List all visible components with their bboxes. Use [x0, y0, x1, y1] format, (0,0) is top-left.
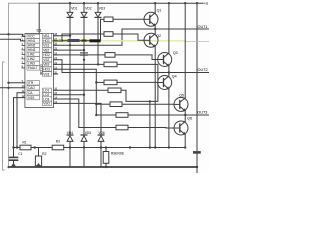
- resistor Rg3: [105, 53, 115, 58]
- wire VB1 row: [54, 35, 71, 37]
- svg-text:HIN3: HIN3: [28, 48, 35, 52]
- svg-text:RSENSE: RSENSE: [111, 152, 124, 156]
- diode VD3: [97, 3, 99, 12]
- svg-text:VCC: VCC: [28, 35, 35, 39]
- wire VB2 row: [54, 49, 85, 51]
- svg-text:HIN1: HIN1: [28, 39, 35, 43]
- resistor R5: [108, 88, 121, 93]
- svg-text:VD1: VD1: [71, 6, 77, 10]
- svg-text:HIN2: HIN2: [28, 44, 35, 48]
- svg-text:VB1: VB1: [43, 34, 49, 38]
- svg-text:VD2: VD2: [85, 6, 91, 10]
- svg-text:OUT1: OUT1: [198, 25, 208, 29]
- svg-text:LO1: LO1: [43, 89, 49, 93]
- svg-text:Q6: Q6: [187, 117, 192, 121]
- frame left: [8, 3, 10, 168]
- svg-text:VD4: VD4: [67, 131, 73, 135]
- node marks on highlight: [59, 40, 63, 42]
- resistor Rg6: [116, 113, 128, 118]
- resistor R3: [52, 145, 64, 150]
- wire LO3 row: [54, 99, 117, 128]
- wire VS3 stub: [54, 73, 58, 75]
- svg-text:IR2130: IR2130: [40, 64, 44, 75]
- wire VCC from left: [0, 34, 25, 36]
- wire OUT3 row: [96, 114, 116, 116]
- svg-text:VD5: VD5: [85, 131, 91, 135]
- svg-text:Q2: Q2: [156, 34, 161, 38]
- svg-text:VSS: VSS: [28, 96, 34, 100]
- svg-text:D1: D1: [37, 28, 43, 33]
- svg-text:R3: R3: [56, 139, 60, 143]
- node rail-right: [196, 2, 198, 4]
- svg-text:VS2: VS2: [43, 58, 49, 62]
- transistor Q5: [174, 97, 188, 111]
- transistor Q1: [144, 12, 158, 26]
- svg-text:LIN3: LIN3: [28, 62, 35, 66]
- svg-text:VB2: VB2: [43, 48, 49, 52]
- svg-text:R1: R1: [23, 141, 27, 145]
- svg-text:Q1: Q1: [157, 8, 162, 12]
- resistor Rg1: [101, 18, 105, 20]
- svg-text:VB3: VB3: [43, 63, 49, 67]
- wire bootstrap column 3: [97, 17, 99, 64]
- svg-text:HO1: HO1: [43, 39, 50, 43]
- svg-text:C1: C1: [18, 152, 22, 156]
- diode VD2: [83, 3, 85, 12]
- frame top segment: [9, 2, 40, 4]
- wire HIN1 from left: [0, 39, 25, 41]
- wire gate Q1 riser: [100, 19, 102, 40]
- svg-text:VS1: VS1: [43, 44, 49, 48]
- wire VSS to bottom: [14, 98, 25, 148]
- svg-text:HO3: HO3: [43, 68, 50, 72]
- resistor Rg4: [96, 81, 104, 83]
- diode VD1: [69, 3, 71, 12]
- wire VS2 row: [54, 60, 63, 73]
- wire +U top rail: [39, 2, 203, 4]
- wire VS1 row: [54, 29, 123, 45]
- wire sense rail: [14, 147, 186, 149]
- wire CA- to bottom: [17, 93, 25, 148]
- svg-text:Q4: Q4: [172, 74, 177, 78]
- svg-text:CAO: CAO: [28, 86, 35, 90]
- svg-text:LIN2: LIN2: [28, 57, 35, 61]
- wire VB3 row: [54, 63, 105, 65]
- transistor Q4: [158, 76, 172, 90]
- connector bracket left edge: [3, 62, 5, 170]
- wire HO1 row: [54, 40, 101, 42]
- svg-text:Q3: Q3: [173, 51, 178, 55]
- svg-text:R2: R2: [42, 152, 46, 156]
- svg-text:Q5: Q5: [179, 94, 184, 98]
- IC D1 pin boxes, pin names and pin numbers: [22, 32, 58, 106]
- IC D1 body: [25, 34, 54, 108]
- svg-text:LIN1: LIN1: [28, 53, 35, 57]
- capacitor C2: [81, 52, 88, 54]
- wire CAO: [0, 87, 25, 89]
- svg-text:VSO: VSO: [43, 102, 50, 106]
- wire HO2 row: [54, 54, 106, 56]
- transistor Q2: [144, 33, 158, 47]
- diode VD5: [81, 134, 87, 136]
- svg-text:OUT3: OUT3: [197, 111, 207, 115]
- wire OUT1 row: [122, 28, 209, 30]
- net highlight yellow: [61, 39, 101, 42]
- wire bottom rail: [9, 166, 198, 168]
- wire right bottom riser: [196, 3, 198, 173]
- wire ITRIP: [9, 82, 25, 84]
- diode VD6: [98, 134, 104, 136]
- capacitor C1: [13, 148, 15, 157]
- transistor Q3: [158, 53, 172, 67]
- wire VSO column: [54, 103, 102, 135]
- net highlight green segment: [54, 40, 62, 42]
- wire bootstrap column 1: [69, 17, 71, 167]
- svg-text:HO2: HO2: [43, 53, 50, 57]
- wire HO3 row to mid column: [54, 69, 97, 115]
- resistor Rg5: [96, 103, 110, 105]
- svg-text:ITR: ITR: [28, 81, 34, 85]
- resistor Rg2: [62, 34, 104, 41]
- wire LO1 row: [54, 89, 109, 91]
- wire bootstrap column 2: [83, 17, 85, 167]
- svg-text:VS3: VS3: [43, 72, 49, 76]
- transistor Q6: [174, 121, 188, 135]
- svg-text:FAULT: FAULT: [28, 66, 38, 70]
- wire VCC riser to IC top: [38, 3, 40, 33]
- svg-text:LO3: LO3: [43, 97, 49, 101]
- svg-text:VD6: VD6: [98, 131, 104, 135]
- svg-text:OUT2: OUT2: [198, 68, 208, 72]
- resistor R4: [104, 62, 117, 67]
- resistor Rg7: [116, 125, 128, 130]
- resistor RSENSE: [105, 148, 107, 152]
- resistor R2: [38, 148, 40, 157]
- diode VD4: [67, 134, 73, 136]
- wire LO2 row: [54, 94, 85, 96]
- resistor R1: [20, 145, 31, 150]
- svg-text:+U: +U: [204, 2, 209, 6]
- wire OUT2 row: [62, 72, 209, 74]
- ground bar right: [193, 151, 201, 154]
- svg-text:VD3: VD3: [99, 6, 105, 10]
